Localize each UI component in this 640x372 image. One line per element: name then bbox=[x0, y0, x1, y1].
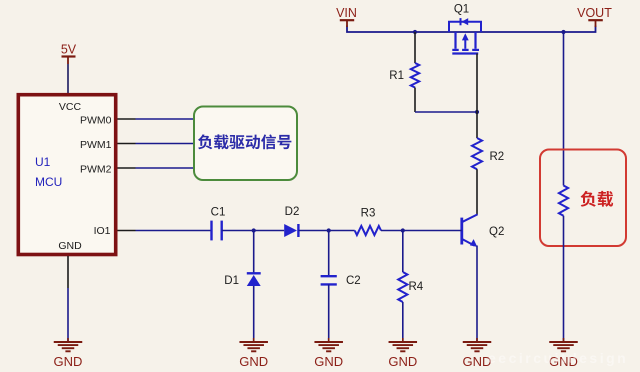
wire R4 to ground bbox=[402, 302, 404, 341]
svg-text:Q1: Q1 bbox=[454, 4, 469, 16]
svg-text:VCC: VCC bbox=[59, 101, 82, 113]
wire node to Q2 base bbox=[403, 230, 462, 232]
power flag 5V bbox=[61, 43, 77, 65]
svg-text:PWM0: PWM0 bbox=[80, 114, 112, 126]
ground symbol Q2 bbox=[476, 338, 478, 342]
label 负载驱动信号 bbox=[198, 134, 291, 149]
wire PWM2 to signal box bbox=[136, 167, 195, 169]
node junction D2/C2/R3 bbox=[327, 228, 331, 232]
wire D2 to node B bbox=[298, 230, 328, 232]
ground symbol MCU bbox=[67, 338, 69, 342]
ground symbol R4 bbox=[402, 338, 404, 342]
wire C1 to node A bbox=[222, 230, 254, 232]
ground symbol C2 bbox=[328, 338, 330, 342]
wire PWM0 to signal box bbox=[136, 118, 195, 120]
resistor R1 bbox=[411, 63, 419, 88]
wire R1 to gate node bbox=[415, 111, 477, 113]
transistor Q2 (NPN) bbox=[462, 214, 478, 247]
svg-text:R4: R4 bbox=[409, 281, 424, 293]
diode D2 (pointing right) bbox=[284, 224, 297, 237]
svg-text:VIN: VIN bbox=[336, 6, 357, 20]
svg-text:R2: R2 bbox=[490, 151, 505, 163]
wire Q2 emitter down bbox=[476, 246, 478, 342]
pin PWM1 bbox=[118, 143, 136, 145]
svg-text:5V: 5V bbox=[61, 43, 77, 57]
svg-text:IO1: IO1 bbox=[94, 225, 111, 237]
svg-text:PWM2: PWM2 bbox=[80, 163, 112, 175]
pin GND (MCU) bbox=[67, 256, 69, 288]
svg-text:VOUT: VOUT bbox=[577, 6, 612, 20]
ground symbol load bbox=[563, 338, 565, 342]
capacitor C2 bbox=[321, 275, 337, 277]
svg-text:GND: GND bbox=[388, 354, 417, 369]
node junction rail/load bbox=[561, 30, 565, 34]
resistor R2 bbox=[472, 138, 482, 169]
wire node to D1 bbox=[253, 231, 255, 274]
svg-text:GND: GND bbox=[239, 354, 268, 369]
wire IO1 to C1 bbox=[136, 230, 211, 232]
resistor load bbox=[559, 186, 568, 216]
svg-text:GND: GND bbox=[58, 240, 82, 252]
svg-text:U1: U1 bbox=[35, 155, 51, 169]
label 负载 bbox=[581, 191, 614, 207]
wire node to D2 bbox=[254, 230, 285, 232]
wire rail to load bbox=[563, 32, 565, 186]
svg-text:MCU: MCU bbox=[35, 175, 62, 189]
wire node to R4 bbox=[402, 231, 404, 273]
node junction R1/gate/R2 bbox=[475, 110, 479, 114]
svg-text:C2: C2 bbox=[346, 275, 361, 287]
wire load to ground bbox=[563, 216, 565, 341]
annotation box load bbox=[540, 150, 626, 247]
wire Q1 gate down bbox=[476, 54, 478, 113]
pin IO1 bbox=[118, 230, 136, 232]
node junction top rail / R1 bbox=[413, 30, 417, 34]
wire 5V to VCC pin bbox=[67, 64, 69, 95]
svg-text:R3: R3 bbox=[361, 208, 376, 220]
node junction C1/D1/D2 bbox=[252, 228, 256, 232]
wire node to C2 bbox=[328, 231, 330, 277]
svg-text:R1: R1 bbox=[389, 70, 404, 82]
annotation box load drive signal bbox=[194, 107, 297, 181]
power flag VIN bbox=[336, 6, 357, 27]
wire C2 to ground bbox=[328, 284, 330, 341]
MCU U1 box bbox=[18, 95, 115, 255]
wire MCU GND down bbox=[67, 288, 69, 341]
wire D1 to ground bbox=[253, 286, 255, 341]
wire R3 to node C bbox=[381, 230, 403, 232]
svg-text:C1: C1 bbox=[211, 207, 226, 219]
wire node B to R3 bbox=[329, 230, 355, 232]
svg-text:GND: GND bbox=[54, 354, 83, 369]
resistor R4 bbox=[398, 272, 407, 302]
svg-text:eecircuitdesign: eecircuitdesign bbox=[488, 350, 628, 366]
wire PWM1 to signal box bbox=[136, 143, 195, 145]
resistor R3 bbox=[355, 226, 381, 235]
transistor Q1 (P-MOSFET) bbox=[449, 18, 481, 53]
power flag VOUT bbox=[577, 6, 612, 27]
svg-text:Q2: Q2 bbox=[489, 226, 504, 238]
capacitor C1 bbox=[210, 221, 212, 241]
wire R1 bottom bbox=[414, 88, 416, 113]
wire top rail VIN to VOUT bbox=[347, 26, 596, 33]
svg-text:D2: D2 bbox=[285, 206, 300, 218]
wire rail to R1 bbox=[414, 32, 416, 63]
ground symbol D1 bbox=[253, 338, 255, 342]
node junction R3/R4/base bbox=[401, 228, 405, 232]
diode D1 (cathode up) bbox=[247, 272, 261, 274]
pin PWM0 bbox=[118, 118, 136, 120]
wire node to R2 bbox=[476, 112, 478, 138]
wire R2 to Q2 collector bbox=[476, 169, 478, 215]
svg-text:GND: GND bbox=[314, 354, 343, 369]
svg-text:PWM1: PWM1 bbox=[80, 139, 112, 151]
svg-text:D1: D1 bbox=[224, 275, 239, 287]
pin PWM2 bbox=[118, 167, 136, 169]
